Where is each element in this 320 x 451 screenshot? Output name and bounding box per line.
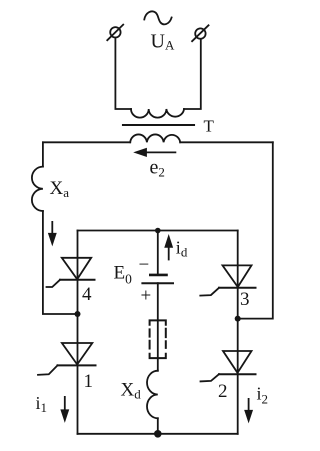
node: right junction dot bbox=[235, 316, 241, 322]
dashed box top bracket bbox=[150, 320, 166, 324]
thyristor Q3 triangle bbox=[223, 265, 252, 287]
node: top rail junction dot bbox=[155, 228, 161, 234]
thyristor Q1 gate bbox=[38, 365, 58, 374]
wire: right outer down bbox=[238, 142, 273, 318]
svg-text:1: 1 bbox=[84, 371, 94, 392]
wire: left primary lead bbox=[115, 38, 131, 109]
arrow i1 (down) bbox=[62, 396, 68, 420]
arrow i2 (down) bbox=[245, 398, 251, 421]
thyristor Q1 cathode bar bbox=[58, 364, 96, 366]
terminal left (phase symbol) bbox=[107, 25, 123, 41]
thyristor Q1 triangle bbox=[62, 343, 92, 365]
thyristor Q2 cathode bar bbox=[219, 373, 256, 375]
thyristor Q3 gate bbox=[200, 288, 219, 296]
node: bottom rail junction dot bbox=[154, 430, 162, 438]
wire: left branch bbox=[77, 231, 79, 434]
thyristor Q2 triangle bbox=[223, 351, 252, 373]
thyristor Q2 gate bbox=[201, 374, 220, 381]
thyristor Q4 triangle bbox=[62, 258, 91, 280]
node: left junction dot bbox=[75, 311, 81, 317]
wire: right primary lead bbox=[184, 39, 201, 109]
wire: center branch top bbox=[157, 231, 159, 275]
arrow e2 bbox=[136, 149, 176, 156]
wire: center branch bottom bbox=[157, 418, 159, 434]
transformer T secondary winding bbox=[130, 134, 180, 142]
arrow id (up) bbox=[166, 237, 172, 261]
svg-text:3: 3 bbox=[240, 289, 250, 310]
wire: center branch mid bbox=[157, 283, 159, 371]
svg-text:4: 4 bbox=[82, 284, 92, 305]
svg-text:−: − bbox=[139, 255, 150, 276]
thyristor Q3 cathode bar bbox=[219, 287, 256, 289]
dashed box right dashes bbox=[165, 329, 167, 348]
wire: left outer down to coil Xa bbox=[42, 142, 44, 166]
transformer core bbox=[123, 124, 194, 126]
wire: right branch bbox=[237, 231, 239, 434]
transformer T primary winding bbox=[131, 109, 184, 118]
bridge bottom rail bbox=[78, 433, 238, 435]
wire: secondary rail left bbox=[43, 141, 130, 143]
svg-text:2: 2 bbox=[218, 381, 228, 402]
wire: secondary rail right bbox=[180, 141, 273, 143]
terminal right (phase symbol) bbox=[192, 25, 208, 41]
bridge top rail bbox=[78, 230, 238, 232]
dashed box left dashes bbox=[149, 329, 151, 348]
svg-text:T: T bbox=[204, 116, 215, 135]
inductor Xa bbox=[32, 167, 43, 211]
battery E0 top plate bbox=[150, 274, 166, 277]
inductor Xd bbox=[147, 371, 158, 419]
svg-text:+: + bbox=[141, 286, 152, 307]
AC sine symbol bbox=[144, 11, 171, 24]
dashed box bottom bracket bbox=[150, 354, 166, 358]
battery E0 bottom plate bbox=[142, 282, 173, 284]
thyristor Q4 gate bbox=[47, 280, 61, 287]
thyristor Q4 cathode bar bbox=[60, 279, 95, 281]
wire: left outer below Xa to junction bbox=[43, 211, 78, 314]
arrow Xa current (down) bbox=[49, 221, 55, 244]
